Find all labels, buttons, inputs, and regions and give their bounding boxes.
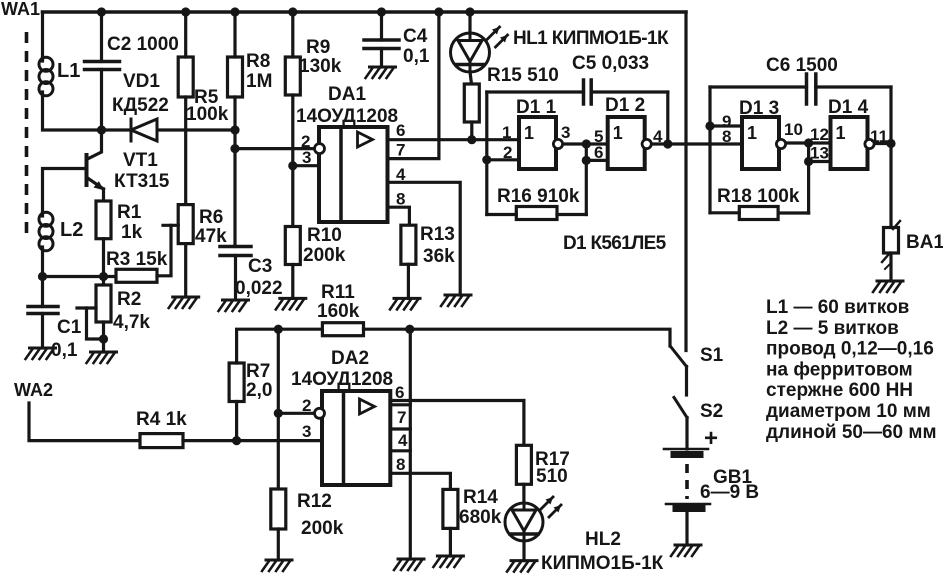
ground C4: [366, 67, 396, 78]
resistor R12: [271, 489, 286, 529]
ground R12: [262, 560, 292, 571]
svg-text:диаметром 10 мм: диаметром 10 мм: [766, 401, 931, 422]
svg-text:6: 6: [594, 143, 603, 162]
ground HL2: [507, 561, 537, 572]
wire DA2 pin2: [278, 412, 313, 415]
svg-text:L2 — 5 витков: L2 — 5 витков: [766, 318, 899, 339]
label R3: [106, 249, 168, 270]
wire R12 to ground: [277, 529, 280, 560]
resistor R7: [229, 363, 244, 402]
wire R4 input: [29, 403, 140, 441]
svg-text:0,1: 0,1: [51, 340, 78, 361]
label DA1 pin7: [396, 141, 405, 160]
svg-text:3: 3: [561, 123, 570, 142]
svg-text:VT1: VT1: [123, 150, 158, 171]
label D1.1 pin2: [503, 143, 512, 162]
label C4 value: [403, 46, 430, 67]
label DA2 pin6: [395, 383, 404, 402]
wire HL1 to R15: [470, 72, 472, 84]
wire R3 to R6 tap: [157, 225, 171, 275]
wire R10 to ground: [291, 265, 294, 299]
svg-text:1M: 1M: [246, 71, 272, 92]
wire emitter node: [43, 275, 117, 278]
svg-text:3: 3: [302, 148, 311, 167]
label C3 value: [235, 278, 283, 299]
resistor R15: [464, 84, 479, 122]
node R8-pin2: [230, 144, 239, 153]
label R10: [307, 225, 342, 246]
svg-text:C2 1000: C2 1000: [107, 34, 179, 55]
logic gate D1.1: [519, 117, 563, 169]
wire R8 top: [233, 12, 236, 57]
capacitor C6: [807, 74, 816, 104]
wire R1 to R2: [102, 239, 105, 285]
wire R5 to R6: [184, 97, 187, 205]
svg-text:4,7k: 4,7k: [113, 312, 150, 333]
wire DA2 pin8 box: [390, 449, 410, 452]
label R17 value: [536, 466, 568, 487]
svg-text:S1: S1: [700, 345, 724, 366]
wire BA1 to ground: [889, 253, 892, 281]
svg-text:длиной 50—60 мм: длиной 50—60 мм: [766, 422, 937, 443]
svg-text:R14: R14: [463, 487, 498, 508]
resistor R2 trimmer: [96, 285, 111, 322]
label R12: [297, 491, 332, 512]
label VT1 type: [114, 171, 170, 192]
wire DA1 pin6 output: [388, 138, 520, 141]
label WA2: [14, 380, 53, 400]
op-amp DA1: [315, 127, 388, 222]
battery GB1: [664, 449, 710, 509]
svg-text:HL2: HL2: [585, 529, 621, 550]
label R15 value: [487, 65, 559, 86]
label D1.1 pin1: [502, 123, 511, 142]
inductor L1: [39, 57, 53, 96]
wire R5 top: [184, 12, 187, 57]
wire DA1 pin2: [235, 147, 313, 150]
label R5: [194, 87, 219, 108]
ground GB1: [671, 545, 701, 556]
label R8: [246, 51, 270, 72]
label DA2: [331, 348, 369, 369]
label D1.3 pin10: [784, 120, 803, 139]
capacitor C1: [28, 307, 58, 314]
svg-text:стержне 600 НН: стержне 600 НН: [766, 380, 913, 401]
svg-text:14ОУД1208: 14ОУД1208: [296, 106, 398, 127]
label R6 value: [195, 226, 227, 247]
label HL2: [585, 529, 621, 550]
node out2-C5loop: [663, 139, 672, 148]
wire bias to S1: [410, 329, 670, 346]
label DA1 pin2: [301, 132, 310, 151]
node L2-C1: [38, 272, 47, 281]
label BA1: [906, 232, 943, 253]
wire rail to L1: [41, 12, 44, 58]
label R2 value: [113, 312, 150, 333]
wire C1 bottom: [41, 314, 44, 349]
wire R8 to C3: [233, 97, 236, 247]
wire R9 to R10: [291, 95, 294, 227]
resistor R3: [116, 269, 157, 282]
label DA2 pin2: [302, 396, 311, 415]
wire L1 to collector node: [43, 95, 132, 130]
wire L2 to emitter node wire: [41, 250, 44, 277]
switch S2: [674, 398, 687, 418]
label D1.3 pin8: [722, 127, 731, 146]
node R2 tap-bottom: [99, 334, 108, 343]
diode VD1: [131, 119, 157, 141]
node R1-R2-wire: [99, 272, 108, 281]
capacitor C4: [364, 40, 399, 49]
svg-text:1: 1: [836, 123, 846, 143]
label DA2 pin8: [396, 455, 405, 474]
label L1: [57, 60, 80, 82]
node R7-R4: [232, 436, 241, 445]
label DA1 type: [296, 106, 398, 127]
svg-text:VD1: VD1: [123, 71, 160, 92]
label DA2 type: [291, 369, 393, 390]
svg-text:510: 510: [536, 466, 568, 487]
label C1 value: [51, 340, 78, 361]
LED HL1: [451, 27, 508, 72]
svg-text:7: 7: [396, 141, 405, 160]
wire DA1 pin8 to R13: [388, 207, 410, 225]
wire C4 bottom: [380, 49, 383, 68]
wire R6 to ground: [184, 244, 187, 297]
svg-text:WA2: WA2: [14, 380, 53, 400]
svg-text:D1 К561ЛЕ5: D1 К561ЛЕ5: [563, 233, 667, 254]
svg-text:C3: C3: [248, 256, 272, 277]
label D1.3: [739, 98, 779, 119]
label GB1: [713, 467, 753, 488]
wire R18 right: [778, 211, 809, 214]
earphone BA1: [882, 221, 900, 269]
ground C3: [219, 300, 249, 311]
wire R11 to output node: [364, 328, 410, 331]
svg-text:2,0: 2,0: [246, 380, 272, 401]
label DA1: [328, 84, 366, 105]
label R16: [497, 186, 580, 207]
svg-text:R9: R9: [306, 37, 330, 58]
svg-text:1: 1: [502, 123, 511, 142]
label C6: [766, 55, 838, 76]
node collector: [97, 125, 106, 134]
wire R4 to DA2 pin3: [183, 439, 322, 442]
svg-text:провод 0,12—0,16: провод 0,12—0,16: [766, 339, 934, 360]
ground BA1: [873, 281, 903, 292]
svg-text:R1: R1: [117, 202, 142, 223]
svg-text:R7: R7: [246, 361, 270, 382]
svg-text:КТ315: КТ315: [114, 171, 170, 192]
wire battery to ground: [685, 510, 688, 545]
wire DA2 pin8 to R14: [390, 473, 450, 489]
svg-text:C1: C1: [57, 317, 82, 338]
wire C2 bottom: [100, 70, 103, 131]
transistor VT1 base lead: [43, 169, 87, 214]
label L2: [60, 219, 83, 241]
svg-text:L2: L2: [60, 219, 83, 241]
wire R9 top: [291, 12, 294, 57]
LED HL2: [505, 497, 561, 541]
svg-text:14ОУД1208: 14ОУД1208: [291, 369, 393, 390]
op-amp DA2: [315, 391, 391, 485]
wire D1.2 out: [653, 142, 742, 145]
svg-text:R15 510: R15 510: [487, 65, 559, 86]
label VD1 type: [112, 95, 169, 116]
wire DA1 pin7 to rail: [388, 12, 439, 159]
label R9 value: [299, 56, 342, 77]
switch S1: [671, 347, 687, 367]
svg-text:10: 10: [784, 120, 803, 139]
svg-text:R8: R8: [246, 51, 270, 72]
ground R2: [87, 352, 117, 363]
label HL2 type: [541, 553, 664, 574]
wire pin12-13 tie: [809, 143, 831, 213]
label R11: [321, 282, 355, 303]
label DA1 pin8: [396, 190, 405, 209]
svg-text:R16 910k: R16 910k: [497, 186, 580, 207]
wire +V top rail: [43, 10, 687, 14]
label DA2 pin7: [397, 408, 406, 427]
node pin6-R16: [582, 156, 591, 165]
svg-text:6—9 В: 6—9 В: [700, 482, 759, 503]
svg-text:R6: R6: [199, 207, 223, 228]
label D1.4 pin12: [810, 125, 829, 144]
svg-text:D1 4: D1 4: [828, 97, 869, 118]
label R7: [246, 361, 270, 382]
wire DA1 pin4 to ground: [388, 182, 461, 295]
wire to R17: [522, 401, 525, 446]
resistor R18: [739, 207, 778, 220]
wire D1.4 out: [877, 142, 892, 145]
svg-text:R4 1k: R4 1k: [136, 409, 187, 430]
label D1.1 pin3: [561, 123, 570, 142]
svg-text:130k: 130k: [299, 56, 342, 77]
svg-text:3: 3: [302, 422, 311, 441]
node rail-R8: [230, 7, 239, 16]
svg-text:1: 1: [613, 123, 623, 143]
node R11-DA2supply: [405, 325, 414, 334]
transistor VT1 base bar: [85, 155, 89, 185]
label C5: [572, 53, 649, 74]
node out3-R18: [804, 138, 813, 147]
label D1.2: [605, 95, 645, 116]
label R8 value: [246, 71, 272, 92]
svg-text:R10: R10: [307, 225, 342, 246]
node pin3: [288, 161, 297, 170]
ground R6: [169, 297, 199, 308]
node rail-R9: [288, 7, 297, 16]
resistor R9: [285, 57, 300, 95]
svg-text:C5 0,033: C5 0,033: [572, 53, 649, 74]
label D1 type: [563, 233, 667, 254]
svg-text:L1 — 60 витков: L1 — 60 витков: [766, 297, 909, 318]
logic gate D1.3: [742, 117, 786, 169]
wire S2 to battery: [685, 418, 688, 450]
wire D1.3 out: [788, 141, 831, 144]
node bias-R12: [274, 325, 283, 334]
svg-text:D1 3: D1 3: [739, 98, 779, 119]
label R1: [117, 202, 142, 223]
label VT1: [123, 150, 158, 171]
wire diode to R8 line: [157, 128, 235, 131]
svg-text:D1 1: D1 1: [516, 97, 557, 118]
label DA1 pin3: [302, 148, 311, 167]
label R5 value: [186, 104, 229, 125]
resistor R13: [401, 225, 416, 264]
resistor R1: [96, 201, 111, 239]
ground R13: [390, 298, 420, 309]
svg-text:R12: R12: [297, 491, 332, 512]
antenna boundary dashed line: [25, 32, 29, 239]
wire pin5-6 tie: [586, 144, 607, 215]
resistor R16: [516, 207, 557, 220]
label R17: [535, 449, 570, 470]
svg-text:4: 4: [396, 165, 406, 184]
label DA2 pin4: [398, 431, 408, 450]
svg-text:680k: 680k: [459, 507, 502, 528]
svg-text:DA2: DA2: [331, 348, 369, 369]
wire R7 top to bias: [237, 329, 323, 363]
resistor R6 trimmer: [178, 205, 193, 244]
svg-text:2: 2: [503, 143, 512, 162]
node out1-R16: [582, 139, 591, 148]
svg-text:0,022: 0,022: [235, 278, 283, 299]
svg-text:160k: 160k: [317, 301, 360, 322]
wire DA2 pin7 box: [390, 405, 410, 429]
svg-text:7: 7: [397, 408, 406, 427]
resistor R11: [322, 323, 363, 336]
note coil winding text: [766, 297, 937, 443]
label D1.4: [828, 97, 869, 118]
wire C1 top: [41, 277, 44, 307]
ground R14: [433, 556, 463, 567]
label R13: [420, 224, 455, 245]
ground DA2 pin4: [394, 559, 424, 570]
svg-text:R13: R13: [420, 224, 455, 245]
svg-text:13: 13: [810, 144, 829, 163]
svg-text:на ферритовом: на ферритовом: [766, 359, 913, 380]
label DA1 pin4: [396, 165, 406, 184]
wire C2 top: [100, 12, 103, 62]
node rail-C4: [377, 7, 386, 16]
svg-text:BA1: BA1: [906, 232, 943, 253]
wire C3 to ground: [234, 256, 237, 301]
wire S1 to S2: [685, 367, 688, 396]
label R13 value: [423, 246, 455, 267]
label DA1 pin6: [396, 121, 405, 140]
label C4: [403, 26, 428, 47]
resistor R8: [228, 57, 243, 97]
wire R16 right: [557, 213, 586, 216]
label C1: [57, 317, 82, 338]
transistor VT1 emitter: [88, 178, 104, 201]
svg-text:HL1 КИПМО1Б-1К: HL1 КИПМО1Б-1К: [513, 28, 669, 49]
wire rail to S1: [684, 12, 687, 351]
resistor R4: [140, 434, 183, 448]
svg-text:2: 2: [302, 396, 311, 415]
label R14 value: [459, 507, 502, 528]
wire HL2 to ground: [522, 542, 525, 561]
label GB1 voltage: [700, 482, 759, 503]
svg-text:DA1: DA1: [328, 84, 366, 105]
label R18: [717, 186, 800, 207]
wire R13 to ground: [407, 264, 410, 298]
wire R2 to ground: [102, 322, 105, 352]
wire R7 bottom: [235, 402, 238, 441]
wire DA1 pin3: [293, 164, 319, 167]
node pin2-R16: [482, 155, 491, 164]
label C2 value: [107, 34, 179, 55]
inductor L2: [39, 212, 53, 251]
capacitor C2: [85, 62, 120, 70]
label R12 value: [301, 518, 344, 539]
node R15-output: [467, 135, 476, 144]
label R11 value: [317, 301, 360, 322]
transistor VT1 collector lead: [88, 130, 102, 159]
label D1.1: [516, 97, 557, 118]
label R14: [463, 487, 498, 508]
svg-text:47k: 47k: [195, 226, 227, 247]
svg-text:200k: 200k: [303, 245, 346, 266]
svg-text:1: 1: [747, 123, 757, 143]
wire rail to HL1: [468, 12, 471, 33]
label R10 value: [303, 245, 346, 266]
logic gate D1.4: [831, 117, 875, 169]
label battery plus: [704, 425, 718, 452]
svg-text:КД522: КД522: [112, 95, 169, 116]
wire DA2 pin6 output: [390, 399, 524, 402]
resistor R14: [443, 489, 458, 528]
label HL1: [513, 28, 669, 49]
label D1.2 pin6: [594, 143, 603, 162]
label C3: [248, 256, 272, 277]
svg-text:R11: R11: [321, 282, 355, 303]
node R8-diode: [230, 125, 239, 134]
wire pin2 tie: [277, 329, 280, 489]
svg-text:D1 2: D1 2: [605, 95, 645, 116]
node pin2-R12: [274, 409, 283, 418]
ground DA1 pin4: [441, 295, 471, 306]
svg-text:WA1: WA1: [1, 0, 40, 19]
svg-text:R2: R2: [117, 289, 141, 310]
svg-text:36k: 36k: [423, 246, 455, 267]
label R9: [306, 37, 330, 58]
label DA2 pin3: [302, 422, 311, 441]
label D1.2 pin5: [594, 127, 603, 146]
svg-text:C4: C4: [403, 26, 428, 47]
svg-text:1: 1: [524, 123, 534, 143]
antenna WA1 label: [1, 0, 40, 19]
node rail-C2: [97, 7, 106, 16]
trimmer R6 tap: [163, 224, 178, 227]
resistor R17: [516, 445, 531, 484]
label R1 value: [121, 222, 143, 243]
node pin9-R18: [705, 121, 714, 130]
svg-text:R3 15k: R3 15k: [106, 249, 168, 270]
svg-text:R18 100k: R18 100k: [717, 186, 800, 207]
node rail-DA1pin7: [434, 7, 443, 16]
node out4-C6loop: [886, 139, 895, 148]
svg-text:L1: L1: [57, 60, 80, 82]
wire R14 to ground: [449, 528, 452, 556]
label D1.4 pin11: [870, 127, 888, 146]
svg-text:8: 8: [396, 455, 405, 474]
label D1.2 pin4out: [653, 127, 663, 146]
capacitor C5: [584, 80, 592, 104]
node pin13-R18: [804, 157, 813, 166]
label R6: [199, 207, 223, 228]
